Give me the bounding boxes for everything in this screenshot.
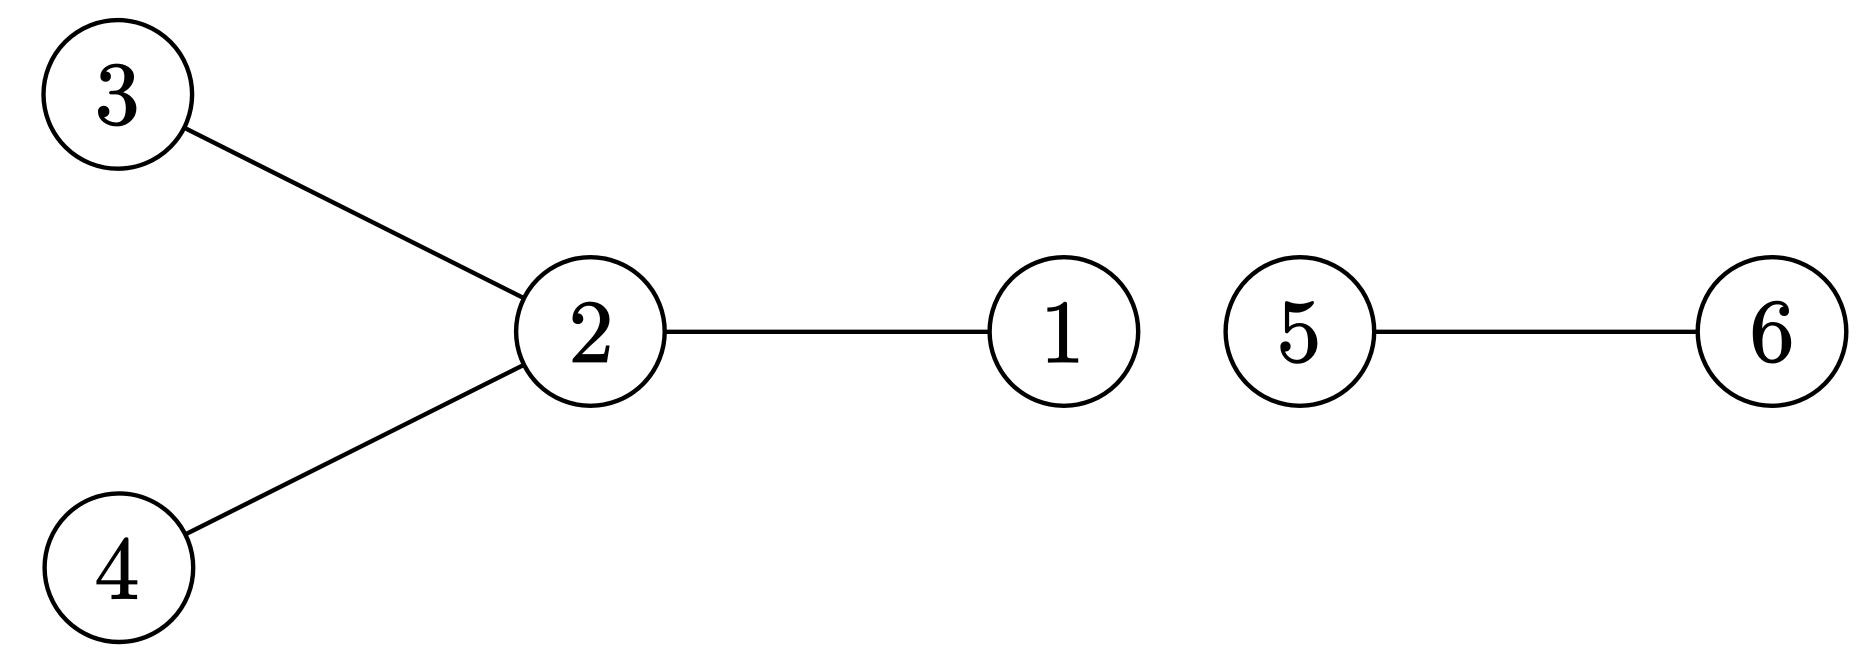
label 1: [1048, 302, 1077, 361]
edge 5-6: [1300, 330, 1772, 334]
label 5: [1281, 302, 1317, 363]
label 6: [1753, 301, 1790, 362]
edge 2-1: [590, 330, 1064, 334]
node 1: [990, 257, 1139, 406]
label 4: [97, 538, 137, 598]
label 2: [573, 302, 609, 361]
node 6: [1698, 257, 1847, 406]
node 3: [44, 20, 193, 169]
node 5: [1226, 257, 1375, 406]
edge 3-2: [118, 94, 591, 331]
node 2: [516, 257, 665, 406]
node 4: [45, 493, 194, 642]
edge 4-2: [119, 332, 591, 568]
label 3: [99, 64, 136, 125]
